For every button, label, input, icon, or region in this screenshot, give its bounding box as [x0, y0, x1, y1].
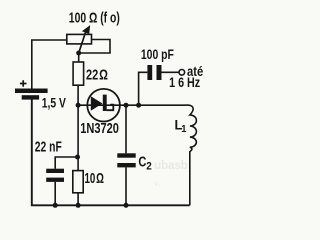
node: 22nF junction: [75, 155, 80, 160]
tunnel diode D1 triangle: [91, 96, 103, 111]
wire: 100pF branch up and right: [139, 72, 148, 105]
potentiometer P1 wiper arrow: [79, 32, 86, 54]
capacitor 100pF left plate: [147, 65, 152, 80]
capacitor C2 bottom plate: [117, 163, 135, 167]
svg-text:1,5 V: 1,5 V: [42, 95, 67, 110]
capacitor 22nF bottom plate: [46, 178, 64, 182]
capacitor C2 top plate: [117, 153, 135, 157]
wire: top wire and left rail down to battery +: [32, 40, 67, 89]
battery B1 short plate: [22, 95, 39, 99]
svg-text:ubasb: ubasb: [154, 158, 188, 172]
wire: 100pF to output terminal: [162, 71, 180, 73]
paper background: [0, 0, 226, 222]
svg-text:22 Ω: 22 Ω: [86, 68, 108, 84]
tunnel diode D1 cathode hook: [107, 105, 114, 111]
node: C2 bottom junction: [124, 203, 129, 208]
node: 22nF bottom junction: [53, 203, 58, 208]
wire: anode junction through diode to L1 branch: [78, 104, 185, 106]
wire: C2 to bottom rail: [125, 167, 127, 205]
capacitor 100pF right plate: [157, 65, 162, 80]
node: diode anode junction: [76, 103, 81, 108]
svg-text:1: 1: [181, 123, 186, 135]
wire: R1 bottom down to R2 top (left branch rail): [77, 85, 79, 170]
wire: 22nF branch from junction left and down: [55, 157, 77, 169]
node: 100pF junction: [136, 103, 141, 108]
tunnel diode D1 cathode bar: [103, 95, 107, 111]
inductor L1 coil: [186, 105, 197, 205]
potentiometer P1 body: [67, 34, 92, 44]
terminal: output circle: [179, 70, 185, 76]
wire: R2 to bottom rail: [77, 193, 79, 206]
node: C2 junction: [124, 103, 129, 108]
node: R2 bottom junction: [76, 203, 81, 208]
svg-text:100 pF: 100 pF: [141, 47, 174, 62]
svg-text:100 Ω (f o): 100 Ω (f o): [69, 10, 120, 27]
battery B1 long plate: [15, 89, 48, 94]
wire: 22nF to bottom rail: [54, 182, 56, 205]
svg-text:1 6 Hz: 1 6 Hz: [169, 75, 200, 90]
wire: C2 branch down: [125, 105, 127, 153]
wire: left rail below battery to bottom rail, bottom rail to L1: [32, 99, 190, 205]
battery B1 plus sign: [20, 80, 27, 87]
wire: wiper node down to R1: [78, 53, 80, 62]
node: wiper junction: [76, 51, 81, 56]
svg-text:22 nF: 22 nF: [35, 139, 62, 155]
svg-text:2: 2: [146, 160, 152, 172]
tunnel diode D1 circle: [87, 89, 120, 122]
capacitor 22nF top plate: [46, 169, 64, 173]
resistor R1 22 Ohm body: [73, 62, 84, 85]
resistor R2 10 Ohm body: [73, 171, 83, 193]
svg-text:10 Ω: 10 Ω: [85, 171, 105, 187]
svg-text:1N3720: 1N3720: [80, 120, 119, 137]
svg-text:v.: v.: [154, 179, 160, 188]
wire: pot right end loop to wiper node: [80, 40, 110, 54]
